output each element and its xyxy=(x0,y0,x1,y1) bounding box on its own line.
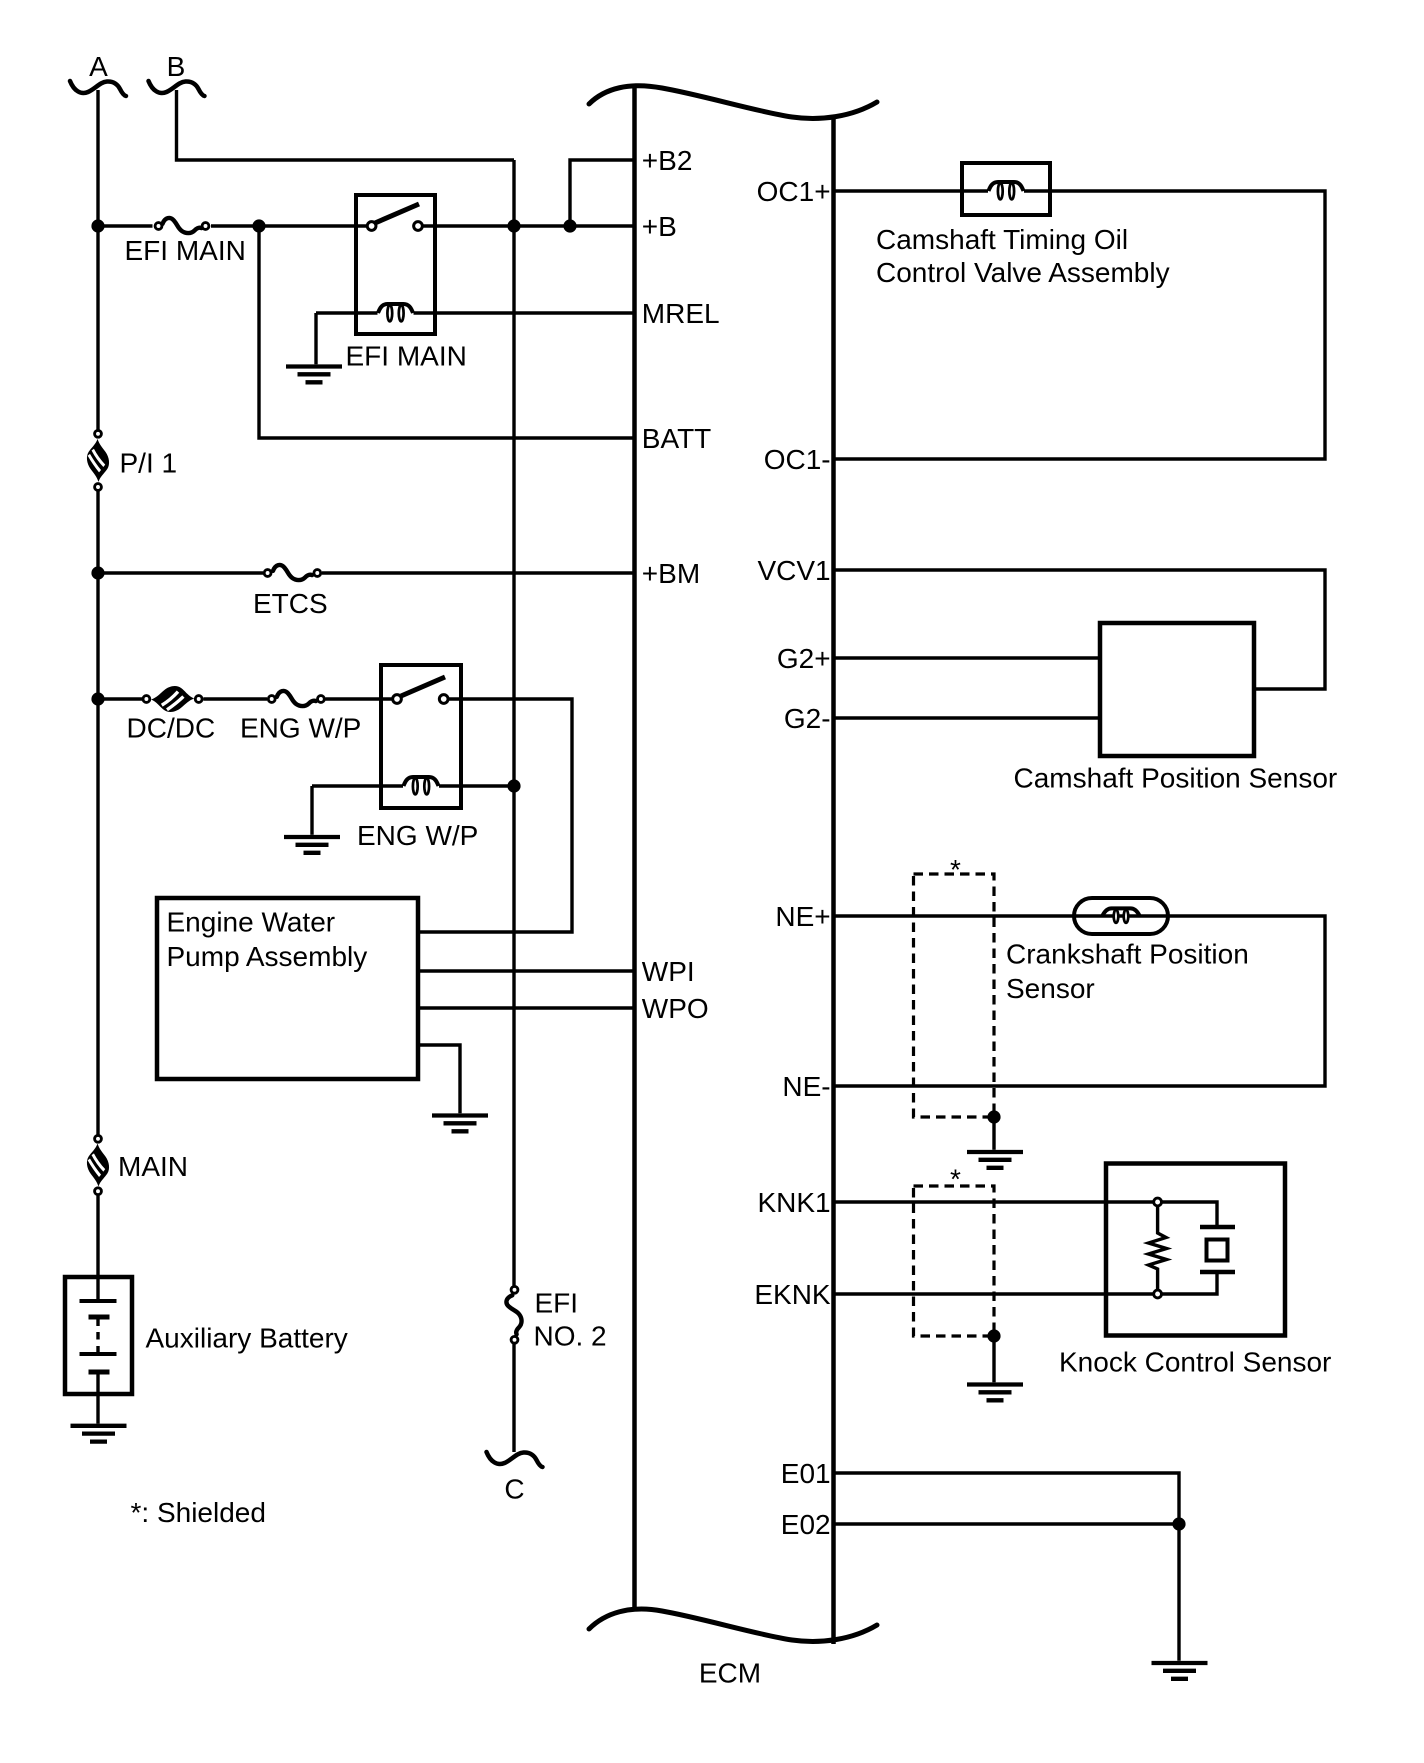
svg-text:ENG W/P: ENG W/P xyxy=(240,713,361,744)
svg-text:*: * xyxy=(950,854,961,885)
svg-text:*: * xyxy=(950,1164,961,1195)
svg-text:KNK1: KNK1 xyxy=(757,1187,830,1218)
svg-text:EKNK: EKNK xyxy=(754,1279,831,1310)
svg-text:EFI MAIN: EFI MAIN xyxy=(346,341,467,372)
svg-text:Camshaft Position Sensor: Camshaft Position Sensor xyxy=(1014,762,1338,793)
svg-text:Sensor: Sensor xyxy=(1006,973,1095,1004)
svg-text:DC/DC: DC/DC xyxy=(127,713,216,744)
svg-text:VCV1: VCV1 xyxy=(757,555,830,586)
svg-text:C: C xyxy=(504,1474,524,1505)
svg-text:Crankshaft Position: Crankshaft Position xyxy=(1006,939,1249,970)
svg-text:EFI: EFI xyxy=(535,1288,579,1319)
svg-text:NE+: NE+ xyxy=(775,901,830,932)
svg-text:ENG W/P: ENG W/P xyxy=(357,820,478,851)
svg-text:WPO: WPO xyxy=(642,993,709,1024)
svg-text:WPI: WPI xyxy=(642,956,695,987)
svg-text:Camshaft Timing Oil: Camshaft Timing Oil xyxy=(876,224,1128,255)
svg-text:Knock Control Sensor: Knock Control Sensor xyxy=(1059,1347,1331,1378)
svg-text:BATT: BATT xyxy=(642,423,711,454)
svg-text:OC1+: OC1+ xyxy=(757,176,831,207)
svg-text:E02: E02 xyxy=(781,1509,831,1540)
svg-text:*: Shielded: *: Shielded xyxy=(131,1497,266,1528)
svg-text:E01: E01 xyxy=(781,1458,831,1489)
svg-text:+B: +B xyxy=(642,211,677,242)
svg-text:+BM: +BM xyxy=(642,558,700,589)
svg-text:B: B xyxy=(167,51,186,82)
svg-text:G2+: G2+ xyxy=(777,643,831,674)
svg-text:OC1-: OC1- xyxy=(764,444,831,475)
svg-text:G2-: G2- xyxy=(784,703,831,734)
svg-text:Engine Water: Engine Water xyxy=(167,906,336,937)
svg-text:ETCS: ETCS xyxy=(253,588,328,619)
svg-text:Pump Assembly: Pump Assembly xyxy=(167,941,368,972)
svg-text:MAIN: MAIN xyxy=(118,1151,188,1182)
svg-text:A: A xyxy=(89,51,108,82)
svg-text:Auxiliary Battery: Auxiliary Battery xyxy=(146,1323,348,1354)
svg-text:EFI MAIN: EFI MAIN xyxy=(125,235,246,266)
svg-text:NO. 2: NO. 2 xyxy=(534,1321,607,1352)
svg-text:P/I 1: P/I 1 xyxy=(120,448,178,479)
svg-text:MREL: MREL xyxy=(642,298,720,329)
svg-text:NE-: NE- xyxy=(782,1071,830,1102)
svg-text:ECM: ECM xyxy=(699,1658,761,1689)
svg-text:Control Valve Assembly: Control Valve Assembly xyxy=(876,257,1170,288)
svg-text:+B2: +B2 xyxy=(642,145,693,176)
